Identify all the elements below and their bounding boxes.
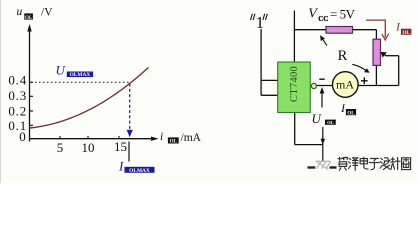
svg-text:I: I	[118, 158, 124, 173]
svg-text:U: U	[56, 63, 67, 78]
svg-text:5: 5	[57, 140, 64, 155]
svg-text:0.4: 0.4	[8, 73, 27, 88]
svg-text:V: V	[308, 7, 318, 22]
svg-text:i: i	[160, 131, 163, 143]
svg-text:0.3: 0.3	[8, 88, 27, 103]
svg-text:10: 10	[82, 140, 95, 155]
svg-text:u: u	[17, 6, 23, 18]
svg-text:OL: OL	[25, 16, 33, 21]
svg-text:OL: OL	[327, 120, 334, 125]
svg-text:/mA: /mA	[181, 132, 202, 144]
svg-text:OLMAX: OLMAX	[70, 72, 91, 78]
svg-text:CT7400: CT7400	[289, 66, 300, 102]
svg-text:= 5V: = 5V	[330, 7, 356, 22]
svg-text:CC: CC	[318, 15, 328, 23]
svg-text:mA: mA	[336, 78, 354, 92]
svg-text:OL: OL	[402, 31, 410, 36]
svg-text:OL: OL	[347, 111, 355, 116]
svg-text:OLMAX: OLMAX	[129, 168, 150, 174]
svg-text:/V: /V	[41, 6, 53, 18]
svg-text:OL: OL	[170, 140, 178, 145]
svg-text:0.2: 0.2	[8, 103, 27, 118]
svg-text:15: 15	[114, 139, 127, 154]
svg-text:0: 0	[19, 129, 26, 144]
svg-text:R: R	[338, 48, 348, 64]
svg-text:1: 1	[256, 13, 265, 32]
svg-text:U: U	[312, 111, 323, 126]
